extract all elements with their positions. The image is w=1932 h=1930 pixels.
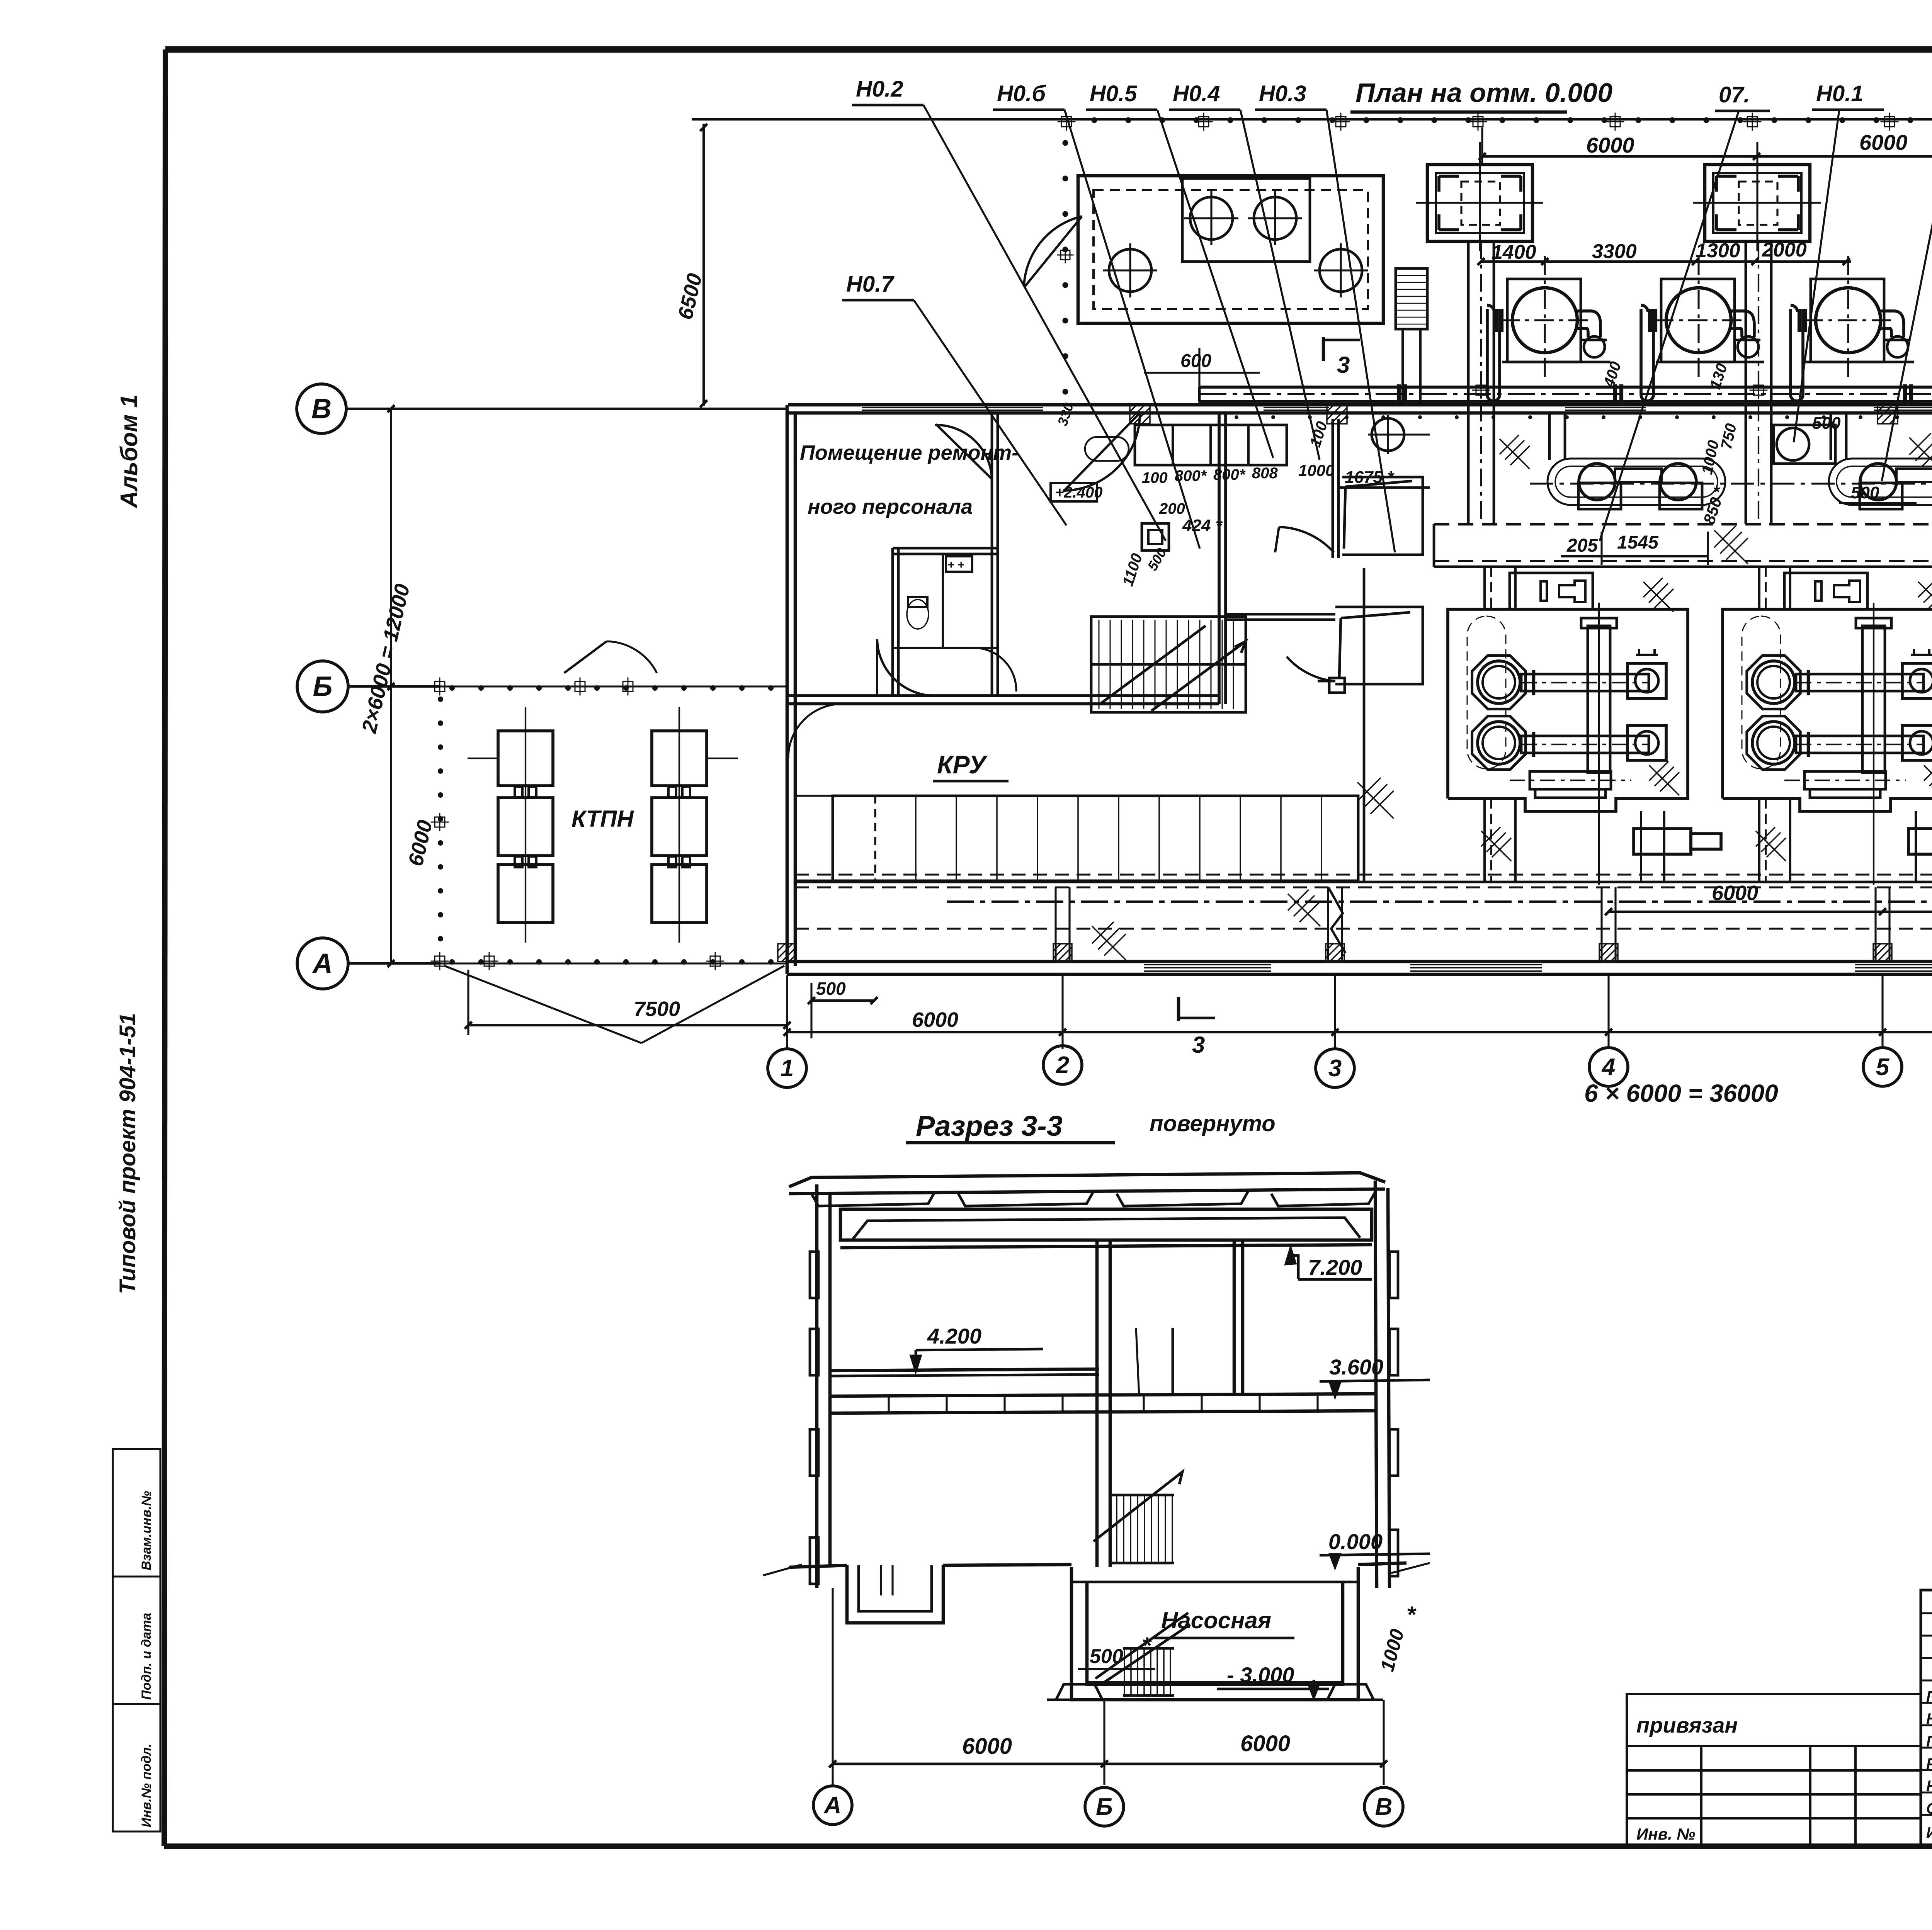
section left pit (847, 1565, 943, 1623)
staircase arrows (1101, 626, 1206, 703)
corridor break zigzag (1328, 887, 1345, 953)
KTPN transformers (498, 731, 553, 786)
svg-text:Ст.инж.: Ст.инж. (1926, 1800, 1932, 1817)
vestibule wall vertical (1332, 419, 1334, 558)
main air pipe horizontal (1199, 386, 1932, 389)
axis extension lines bottom (786, 975, 788, 1049)
svg-text:Н0.4: Н0.4 (1173, 81, 1220, 106)
svg-text:6000: 6000 (1712, 882, 1758, 905)
south corridor axis stubs (1054, 887, 1056, 962)
yard pump group 2 base line (1656, 361, 1764, 364)
compressor unit 1 pump box below (1634, 829, 1691, 854)
small cells row (1135, 425, 1287, 465)
svg-text:500: 500 (1090, 1645, 1123, 1668)
svg-text:1675 *: 1675 * (1345, 468, 1395, 487)
svg-text:1300: 1300 (1696, 240, 1740, 262)
svg-text:Типовой проект 904-1-51: Типовой проект 904-1-51 (115, 1013, 140, 1294)
KTPN diagonal legs (444, 966, 641, 1043)
vestibule door arc upper (1279, 527, 1334, 552)
axis circle A (297, 938, 348, 989)
plus2400 box (1051, 483, 1097, 501)
room door arc 2 (935, 425, 992, 479)
compressor unit 2 cylinder rail 2 (1796, 736, 1923, 753)
south corridor dashed band 2 (795, 886, 1932, 888)
yard pump group 2 elbow pipe (1731, 311, 1754, 337)
KTPN fence south (440, 962, 788, 964)
dim row 6000 top 2 (1757, 155, 1932, 158)
yard pump group 3 base rect (1811, 279, 1884, 362)
north yard fence dots (1092, 117, 1932, 123)
aftercooler 2 circle L (1860, 464, 1896, 500)
south wall column hatches at axes (778, 944, 796, 962)
compressor unit 2 base flywheel (1804, 771, 1886, 789)
rooms west partition (891, 548, 894, 696)
svg-text:*: * (1406, 1602, 1417, 1628)
corridor door arc 4 (788, 704, 842, 758)
section mark 3 top (1322, 337, 1325, 361)
compressor unit 2 hatch marks (1918, 578, 1932, 612)
fan leader arrow (1408, 433, 1430, 435)
section stair arrow lower (1101, 1624, 1190, 1684)
H0.2 left circle (1109, 249, 1151, 292)
yard pump group 2 drop pipe (1639, 309, 1643, 395)
pipe centerline dashdot (1199, 393, 1932, 395)
svg-text:2: 2 (1056, 1052, 1069, 1079)
section floor 4.200 (830, 1369, 1099, 1371)
building north wall window segments (862, 407, 1043, 408)
svg-text:500: 500 (816, 979, 846, 999)
vestibule door arc lower (1287, 657, 1334, 681)
vestibule upper box (1342, 477, 1423, 555)
H0.2 right circle (1320, 249, 1362, 292)
axis circle B (297, 661, 348, 712)
compressor unit 2 vertical axis (1873, 603, 1874, 885)
yard pump group 3 suction flange (1803, 309, 1807, 332)
building south wall (787, 960, 1932, 963)
yard pump group 1 elbow pipe (1577, 311, 1600, 337)
svg-text:В: В (311, 393, 332, 424)
compressor unit 2 motor 1 octagon (1747, 656, 1801, 709)
svg-text:ГИП: ГИП (1926, 1688, 1932, 1705)
yard pump group 1 suction flange (1500, 309, 1503, 332)
south corridor long dashed (795, 928, 1932, 929)
compressor unit 2 motor 2 octagon (1747, 716, 1801, 770)
svg-text:Б: Б (313, 671, 333, 702)
rooms block east wall (1218, 413, 1221, 704)
KTPN gate door (564, 641, 607, 673)
wall inner dots row (1235, 415, 1932, 419)
section column B upper (1233, 1240, 1236, 1394)
svg-text:Рук.гр.: Рук.гр. (1926, 1755, 1932, 1772)
yard pump group 3 motor circle (1816, 288, 1881, 353)
svg-text:6000: 6000 (912, 1008, 958, 1031)
wall stub below vestibule (1318, 680, 1335, 683)
svg-text:7500: 7500 (634, 997, 680, 1021)
svg-text:Н0.2: Н0.2 (856, 76, 903, 102)
svg-text:3.600: 3.600 (1329, 1355, 1383, 1379)
compressor unit 1 column strips below (1483, 799, 1486, 881)
aftercooler 1 stadium (1548, 459, 1725, 505)
compressor unit 2 dashed dome (1742, 616, 1781, 769)
axis circle 3 (1316, 1049, 1354, 1087)
south corridor solid line (795, 881, 1932, 883)
svg-text:0.000: 0.000 (1328, 1529, 1383, 1554)
H0.2 inner circle 2 (1254, 197, 1296, 240)
south axis dim line (947, 900, 1932, 903)
compressor unit 1 motor 2 circle (1478, 722, 1520, 764)
unit small circle H01 target (1774, 425, 1835, 464)
room door arc 1 (877, 639, 935, 696)
svg-text:КРУ: КРУ (937, 750, 988, 779)
svg-text:Взам.инв.№: Взам.инв.№ (139, 1491, 154, 1570)
compressor unit 2 motor 1 circle (1752, 661, 1795, 703)
svg-text:+2.400: +2.400 (1055, 484, 1102, 501)
walkway hatch 1 (1714, 526, 1748, 564)
aftercooler 2 base plates (1860, 483, 1902, 509)
compressor unit 2 bearing block 1 (1902, 663, 1932, 698)
compressor unit 2 cylinder rail 1 (1796, 674, 1923, 691)
svg-text:808: 808 (1252, 465, 1278, 482)
H0.2 equipment block outline (1078, 176, 1383, 323)
compressor unit 1 bearing block 1 (1628, 663, 1666, 698)
hatch in KRU corridor (1092, 922, 1126, 960)
dim row mid 1400 3300 1300 2000 (1481, 260, 1851, 263)
section label 7.200 (1293, 1256, 1298, 1279)
aftercooler 2 inner rect (1896, 469, 1932, 482)
aftercooler 2 stadium (1829, 459, 1932, 505)
room door arc 3 wash (974, 648, 1016, 691)
svg-text:Н0.1: Н0.1 (1816, 81, 1864, 106)
svg-text:5: 5 (1876, 1054, 1890, 1081)
equipment pill tank (1085, 437, 1129, 461)
compressor unit 2 column strips below (1758, 799, 1760, 881)
vestibule upper door flap (1345, 481, 1412, 487)
H0.2 block dashed inner (1094, 190, 1368, 309)
compressor unit 1 column strips above (1483, 567, 1486, 609)
aftercooler 1 circle R (1660, 464, 1696, 500)
svg-text:План на отм. 0.000: План на отм. 0.000 (1355, 78, 1612, 108)
receiver R1 corner brackets (1439, 176, 1459, 192)
svg-text:А: А (823, 1792, 842, 1819)
svg-text:6000: 6000 (1240, 1731, 1290, 1756)
yard pump group 2 motor circle (1666, 288, 1731, 353)
H0.2 inner unit rect (1182, 178, 1310, 262)
yard pump group 1 base rect (1507, 279, 1581, 362)
hatch near unit2 top (1909, 433, 1932, 471)
small box with square (1142, 523, 1169, 550)
svg-text:повернуто: повернуто (1150, 1111, 1276, 1136)
title block signature grid (1921, 1590, 1932, 1846)
compressor unit 1 crank column (1588, 626, 1610, 773)
toilet bowl (907, 600, 929, 629)
compressor unit 2 flange ticks (1807, 670, 1810, 695)
axis line V horizontal (346, 408, 788, 410)
compressor unit 1 room rect (1448, 609, 1688, 811)
svg-text:Инв.№ подл.: Инв.№ подл. (139, 1743, 154, 1827)
svg-text:424 *: 424 * (1182, 516, 1223, 535)
yard pump group 1 motor circle (1512, 288, 1577, 353)
section basement footing right (1327, 1684, 1374, 1700)
rooms block south wall (788, 694, 1219, 697)
compressor unit 1 bearing block 2 (1628, 725, 1666, 760)
svg-text:800*: 800* (1213, 466, 1246, 483)
aftercooler axis dashdot line (1530, 482, 1932, 484)
south wall window segments (1144, 964, 1271, 965)
svg-text:3: 3 (1337, 352, 1350, 378)
receiver R2 support column strip (1745, 241, 1747, 524)
vertical dim line 2x6000 (390, 409, 392, 963)
vertical dim line 6500 (702, 124, 705, 406)
hall hatch mark 1 (1357, 778, 1394, 819)
section basement nasosnaya walls (1071, 1567, 1358, 1700)
svg-text:+ +: + + (947, 559, 964, 571)
svg-text:4: 4 (1601, 1054, 1615, 1081)
section axis circle B (1085, 1787, 1124, 1826)
svg-text:Н.контр.: Н.контр. (1926, 1778, 1932, 1795)
yard ladder west of receiver R1 (1396, 268, 1427, 329)
yard pump group 3 drop pipe (1789, 309, 1792, 395)
receiver R1 axis lines (1479, 142, 1481, 251)
compressor unit 1 vertical axis (1598, 603, 1600, 885)
svg-text:1545: 1545 (1617, 532, 1659, 553)
compressor unit 1 control box (1510, 573, 1593, 609)
svg-text:7.200: 7.200 (1308, 1255, 1362, 1279)
receiver R1 outer (1427, 165, 1532, 241)
left margin stamp boxes (113, 1449, 160, 1831)
svg-text:100: 100 (1142, 469, 1168, 486)
KTPN fence column marks (431, 678, 449, 696)
axis line B horizontal (348, 685, 440, 688)
staircase block (1091, 617, 1246, 712)
H0.2 inner circle 1 (1190, 197, 1233, 240)
south corridor dashed band 1 (795, 873, 1932, 875)
svg-text:Н0.3: Н0.3 (1259, 81, 1306, 106)
dim 7500 line (468, 1024, 787, 1026)
section basement floor -3.000 (1087, 1681, 1343, 1684)
aftercooler 1 circle L (1579, 464, 1615, 500)
corridor wall segment to vestibule (1227, 613, 1335, 616)
svg-text:Помещение ремонт-: Помещение ремонт- (800, 441, 1019, 464)
svg-text:6000: 6000 (1859, 130, 1908, 155)
compressor unit 1 cylinder rail 1 (1521, 674, 1649, 691)
section roof slab (789, 1173, 1385, 1187)
svg-text:1000: 1000 (1298, 461, 1334, 479)
building west wall axis 1 (786, 405, 789, 974)
compressor unit 2 valve top (1911, 649, 1932, 656)
axis circle V (297, 384, 346, 433)
svg-text:1: 1 (781, 1055, 794, 1082)
receiver R1 inner dashed (1461, 182, 1500, 225)
svg-text:Разрез 3-3: Разрез 3-3 (916, 1110, 1063, 1142)
section ground hatch left (763, 1565, 802, 1575)
svg-text:07.: 07. (1719, 82, 1750, 107)
svg-text:3: 3 (1192, 1032, 1205, 1058)
receiver R2 outer (1705, 165, 1810, 241)
compressor unit 2 bearing block 2 (1902, 725, 1932, 760)
compressor unit 1 motor 1 octagon (1472, 656, 1526, 709)
compressor unit 1 motor 2 octagon (1472, 716, 1526, 770)
section ground floor 0.000 (789, 1565, 847, 1567)
KTPN horizontal axis lines (468, 758, 498, 759)
section axis circle V (1364, 1787, 1403, 1826)
svg-text:Гл.спец.: Гл.спец. (1926, 1733, 1932, 1750)
svg-text:КТПН: КТПН (571, 806, 634, 832)
section stair lower flight (1124, 1648, 1170, 1696)
yard pump group 3 base line (1806, 361, 1914, 364)
section middle column B (1095, 1240, 1099, 1567)
axis circle 4 (1589, 1048, 1628, 1086)
yard pump group 3 elbow pipe (1881, 311, 1904, 337)
south dim 6000 b (1883, 911, 1932, 913)
compressor unit 2 motor 2 circle (1752, 722, 1795, 764)
main entrance door arc (1063, 413, 1140, 491)
svg-text:Инж: Инж (1926, 1824, 1932, 1841)
section axis circle A (813, 1786, 852, 1825)
compressor unit 1 flange ticks (1532, 670, 1536, 695)
axis circle 1 (768, 1049, 806, 1087)
svg-text:200: 200 (1159, 500, 1185, 517)
yard pump group 2 base rect (1661, 279, 1735, 362)
title block outer (1921, 1590, 1932, 1846)
section dimension line bottom (833, 1763, 1384, 1765)
aftercooler riser 1 (1548, 413, 1551, 460)
south hatch 1 (1288, 890, 1320, 926)
section left column A (815, 1184, 819, 1588)
vestibule lower door flap (1341, 612, 1410, 618)
yard pump group 3 valve circle (1887, 336, 1908, 357)
compressor unit 1 valve top (1636, 649, 1658, 656)
compressor unit 2 column strips above (1758, 567, 1760, 609)
rooms east partition (991, 413, 993, 696)
compressor unit 1 motor 1 circle (1478, 661, 1520, 703)
compressor unit 1 hatch marks (1643, 578, 1673, 612)
receiver R1 support column strip (1467, 241, 1470, 524)
north yard fence column marks (1058, 113, 1076, 131)
section floor 3.600 slab (830, 1394, 1375, 1396)
yard west fence dotted vertical (1063, 140, 1068, 395)
svg-text:Н0.б: Н0.б (997, 81, 1046, 106)
svg-text:500: 500 (1812, 414, 1841, 433)
svg-text:205: 205 (1566, 535, 1598, 556)
axis line A horizontal (348, 962, 440, 965)
hall west line (1363, 568, 1366, 881)
walkway band lines (1434, 523, 1932, 526)
aftercooler 1 base plates (1578, 483, 1621, 509)
yard pump group 2 valve circle (1738, 336, 1759, 357)
svg-text:Нач.отд.: Нач.отд. (1926, 1711, 1932, 1728)
section right column V (1375, 1181, 1377, 1588)
washroom fan circle (1372, 418, 1404, 451)
KRU cells row (795, 795, 833, 797)
door arc west of H0.2 (1024, 216, 1082, 286)
KTPN fence west dotted (438, 697, 443, 941)
svg-text:6000: 6000 (1586, 133, 1634, 157)
yard pump group 1 valve circle (1584, 336, 1605, 357)
section stair slash lower (1095, 1613, 1188, 1679)
svg-text:Н0.7: Н0.7 (846, 272, 895, 297)
svg-text:ного персонала: ного персонала (808, 495, 973, 518)
svg-text:3300: 3300 (1592, 240, 1637, 263)
svg-text:600: 600 (1180, 351, 1211, 371)
receiver R2 inner dashed (1739, 182, 1777, 225)
axis circle 5 (1863, 1048, 1902, 1086)
main air pipe joint flanges (1397, 384, 1401, 404)
KRU cells dashed left part (833, 796, 875, 881)
svg-text:- 3.000: - 3.000 (1227, 1663, 1294, 1687)
section roof girder (840, 1209, 1372, 1240)
yard pump group 2 suction flange (1653, 309, 1657, 332)
hatch near unit1 top (1500, 435, 1530, 469)
svg-text:500: 500 (1851, 483, 1879, 502)
dim row 6000 top 1 (1482, 155, 1757, 158)
bottom dim line 36000 (787, 1031, 1932, 1033)
svg-text:А: А (312, 948, 333, 979)
section mark 3 bottom (1177, 997, 1180, 1021)
compressor unit 1 dashed dome (1467, 616, 1506, 769)
compressor unit 2 crank column (1862, 626, 1885, 773)
svg-text:6000: 6000 (962, 1734, 1012, 1759)
building north wall axis V (788, 403, 1932, 407)
section stair arrow upper (1094, 1472, 1182, 1541)
section basement footing left (1056, 1684, 1102, 1700)
svg-text:В: В (1375, 1794, 1393, 1820)
yard pump group 1 drop pipe (1486, 309, 1489, 395)
svg-text:Н0.5: Н0.5 (1090, 81, 1137, 106)
vestibule lower box (1335, 607, 1423, 684)
svg-text:1400: 1400 (1492, 241, 1536, 263)
compressor unit 2 control box (1784, 573, 1867, 609)
compressor unit 1 base flywheel (1530, 771, 1611, 789)
KRU front line (795, 880, 1358, 882)
compressor unit 1 cylinder rail 2 (1521, 736, 1649, 753)
svg-text:6 × 6000 = 36000: 6 × 6000 = 36000 (1584, 1079, 1778, 1107)
staircase treads (1099, 620, 1233, 709)
washroom inner partition (942, 554, 944, 649)
south dim 6000 a (1609, 911, 1883, 913)
north yard fence line (692, 118, 1932, 121)
svg-text:3: 3 (1328, 1055, 1342, 1082)
compressor unit 2 pump box below (1908, 829, 1932, 854)
section stair upper flight (1117, 1495, 1172, 1563)
svg-text:Б: Б (1096, 1794, 1113, 1820)
svg-text:привязан: привязан (1636, 1713, 1738, 1737)
compressor unit 2 room rect (1723, 609, 1932, 811)
yard pump group 1 base line (1502, 361, 1611, 364)
svg-text:Подп. и дата: Подп. и дата (139, 1613, 154, 1700)
section small partition at 3.600 (1172, 1328, 1174, 1396)
svg-text:4.200: 4.200 (927, 1324, 981, 1348)
aftercooler 1 inner rect (1615, 469, 1662, 482)
pривязан stamp table (1627, 1694, 1921, 1846)
receiver R2 corner brackets (1716, 176, 1736, 192)
washroom sink (946, 556, 972, 572)
svg-text:2000: 2000 (1762, 239, 1807, 261)
section pit ladder (880, 1565, 882, 1595)
aftercooler riser 2 (1830, 413, 1832, 460)
svg-text:Инв. №: Инв. № (1636, 1825, 1695, 1843)
svg-text:Альбом 1: Альбом 1 (116, 394, 143, 509)
receiver R2 axis lines (1756, 142, 1758, 251)
building north wall column hatches (1130, 404, 1150, 424)
KTPN fence north (440, 685, 788, 687)
rooms partition horizontal (893, 547, 997, 550)
axis circle 2 (1043, 1046, 1082, 1084)
